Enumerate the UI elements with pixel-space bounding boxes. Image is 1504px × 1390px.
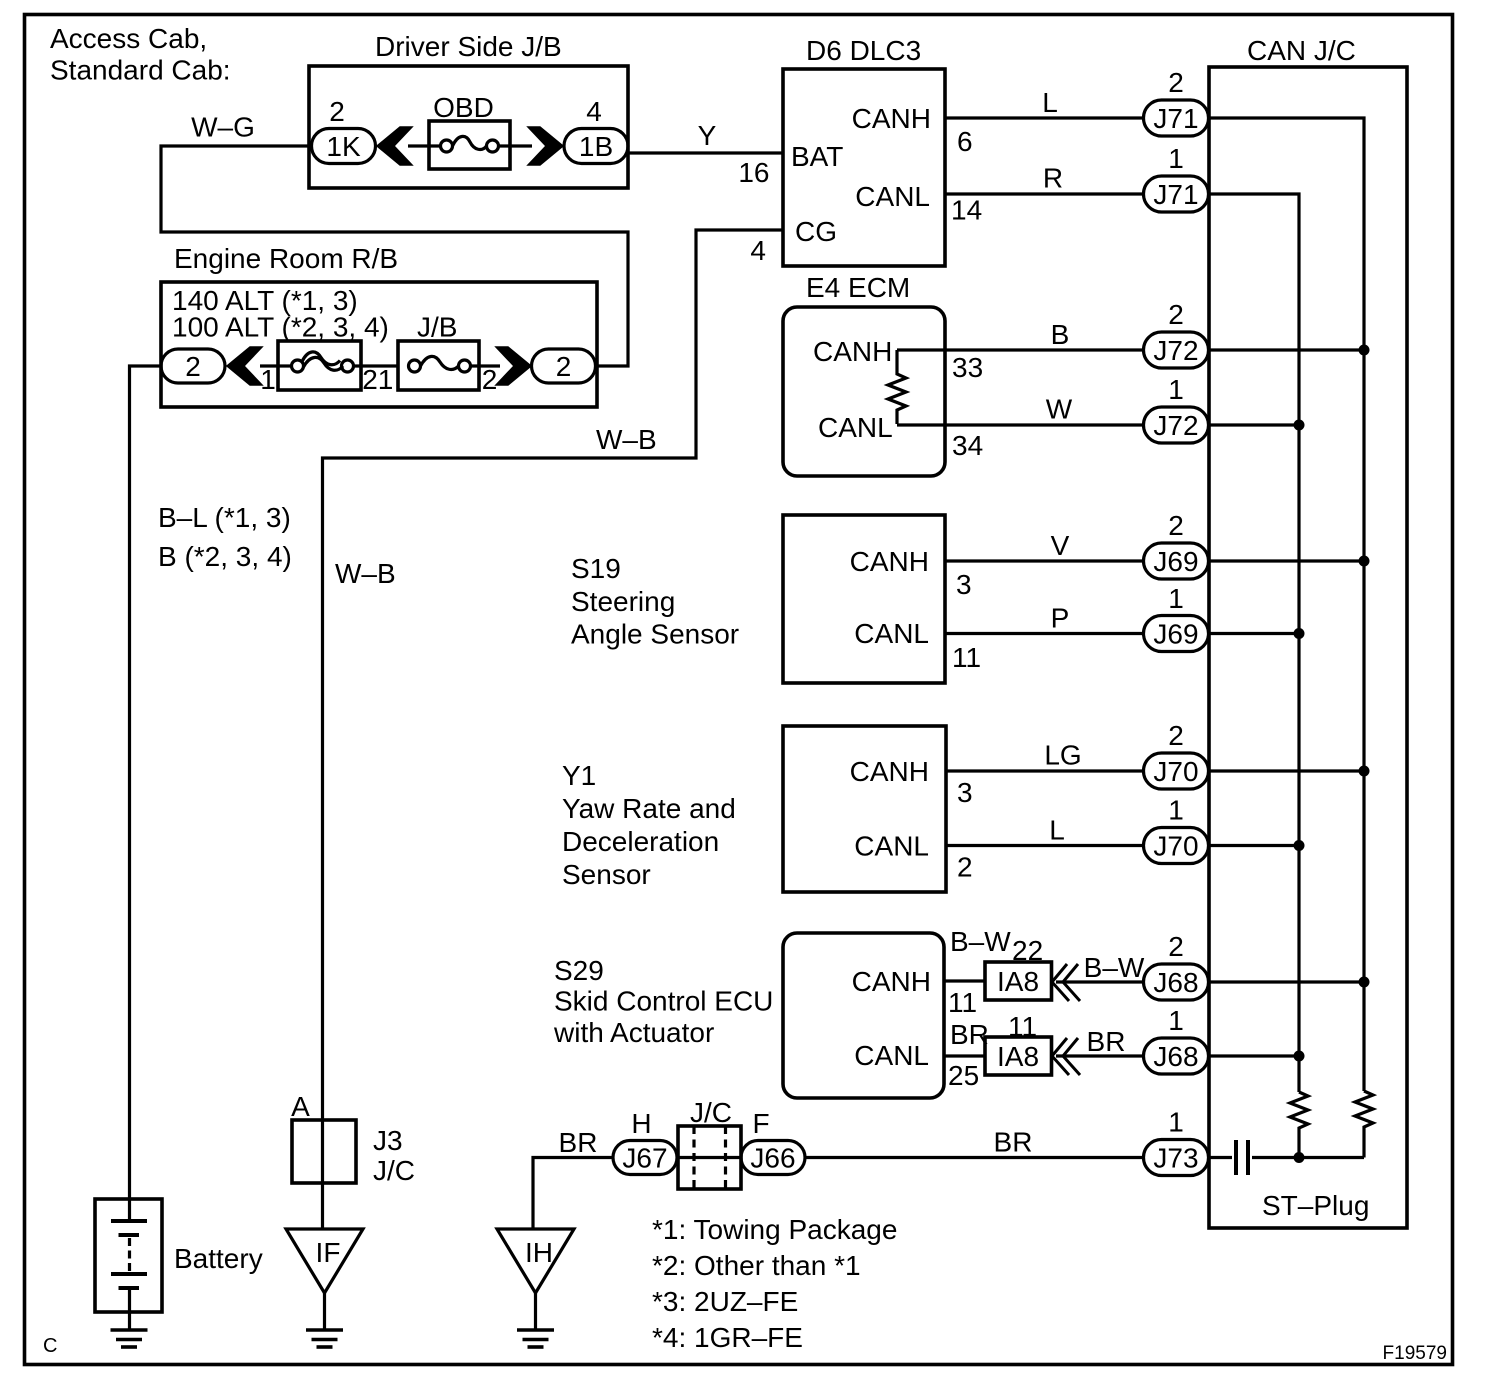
bus CANL (left vertical) [1209,194,1299,1092]
svg-text:J73: J73 [1153,1143,1198,1174]
svg-text:2: 2 [1168,67,1184,98]
wire stub J72-1 [1209,423,1299,426]
junction dot ST-Plug [1294,1152,1305,1163]
svg-text:2: 2 [185,351,201,382]
connector oval 2 (right) [532,349,596,383]
svg-text:J69: J69 [1153,619,1198,650]
svg-text:W: W [1046,394,1073,425]
svg-text:IA8: IA8 [997,1041,1039,1072]
svg-text:Steering: Steering [571,586,675,617]
svg-text:BAT: BAT [791,141,843,172]
svg-text:J66: J66 [750,1143,795,1174]
svg-text:H: H [631,1108,651,1139]
svg-text:V: V [1051,530,1070,561]
svg-text:CANH: CANH [852,103,931,134]
svg-text:IF: IF [316,1237,341,1268]
ground point IH [497,1229,574,1293]
svg-text:ST–Plug: ST–Plug [1262,1190,1369,1221]
connector arrow (right chevron) [496,347,531,385]
svg-text:J71: J71 [1153,179,1198,210]
svg-text:1B: 1B [579,131,613,162]
junction dot J68-2 [1359,977,1370,988]
ground (battery) [111,1328,148,1332]
svg-text:6: 6 [957,126,973,157]
ground point IF [286,1229,363,1293]
svg-text:Standard Cab:: Standard Cab: [50,55,231,86]
capacitor (ST-Plug) [1209,1156,1233,1159]
svg-text:3: 3 [956,569,972,600]
fuse 140/100 ALT [278,341,361,390]
svg-text:P: P [1051,603,1070,634]
svg-text:J69: J69 [1153,546,1198,577]
svg-text:*3: 2UZ–FE: *3: 2UZ–FE [652,1286,798,1317]
svg-text:*4: 1GR–FE: *4: 1GR–FE [652,1322,803,1353]
svg-text:CANH: CANH [850,756,929,787]
svg-text:2: 2 [1168,720,1184,751]
svg-text:4: 4 [750,235,766,266]
svg-text:J70: J70 [1153,756,1198,787]
svg-text:16: 16 [738,157,769,188]
svg-text:2: 2 [1168,931,1184,962]
svg-text:J68: J68 [1153,967,1198,998]
svg-text:B–W: B–W [950,926,1011,957]
svg-text:E4 ECM: E4 ECM [806,272,910,303]
svg-text:33: 33 [952,352,983,383]
svg-text:Y1: Y1 [562,760,596,791]
connector oval 2 (left) [161,349,225,383]
svg-text:CANH: CANH [813,336,892,367]
wire stub J69-1 [1209,632,1299,635]
svg-text:Skid Control ECU: Skid Control ECU [554,986,773,1017]
svg-text:J70: J70 [1153,831,1198,862]
svg-text:1: 1 [378,364,394,395]
svg-text:2: 2 [329,96,345,127]
junction dot J72-2 [1359,345,1370,356]
wire stub J68-2 [1209,980,1364,983]
svg-text:Y: Y [698,120,717,151]
connector arrow (left chevron) [377,127,412,165]
bus CANH (right vertical) [1209,118,1364,1091]
svg-text:with Actuator: with Actuator [553,1017,714,1048]
resistor (ECM terminating) [888,350,906,424]
svg-text:J67: J67 [622,1143,667,1174]
svg-text:Access Cab,: Access Cab, [50,23,207,54]
svg-text:Deceleration: Deceleration [562,826,719,857]
double chevron (CANL) [1052,1038,1069,1075]
wire: J3 to IF [321,1120,324,1229]
svg-text:CANL: CANL [855,181,930,212]
svg-text:BR: BR [950,1019,989,1050]
svg-text:Angle Sensor: Angle Sensor [571,619,739,650]
ground (IH) [517,1328,554,1332]
svg-text:J3: J3 [373,1125,403,1156]
svg-text:11: 11 [952,642,981,673]
double chevron (CANH) [1052,964,1069,1001]
svg-text:LG: LG [1044,740,1081,771]
connector IA8 (CANL) [985,1037,1052,1075]
connector arrow (left chevron) [227,347,262,385]
svg-text:2: 2 [482,364,498,395]
svg-text:J68: J68 [1153,1041,1198,1072]
wire stub J72-2 [1209,348,1364,351]
svg-text:CAN J/C: CAN J/C [1247,35,1356,66]
junction dot J70-1 [1294,840,1305,851]
svg-text:BR: BR [559,1127,598,1158]
svg-text:B–L (*1, 3): B–L (*1, 3) [158,502,291,533]
terminating resistor (left) [1290,1092,1308,1158]
svg-text:W–B: W–B [335,558,396,589]
wire W-B: CG to J3/IF ground [323,230,784,1120]
svg-text:CANL: CANL [818,412,893,443]
svg-text:100 ALT (*2, 3, 4): 100 ALT (*2, 3, 4) [172,312,389,343]
battery [95,1199,162,1312]
connector arrow (right chevron) [528,127,563,165]
svg-text:C: C [43,1335,57,1357]
terminating resistor (right) [1355,1091,1373,1158]
svg-text:1: 1 [1168,1005,1184,1036]
svg-text:1: 1 [1168,143,1184,174]
wire: S29 CANL to IA8 [944,1054,985,1057]
wire: S29 CANH to IA8 [944,979,985,982]
svg-text:CANH: CANH [852,966,931,997]
svg-text:2: 2 [1168,510,1184,541]
svg-text:2: 2 [1168,299,1184,330]
svg-text:Yaw Rate and: Yaw Rate and [562,793,736,824]
svg-text:CANL: CANL [854,1040,929,1071]
svg-text:J72: J72 [1153,410,1198,441]
svg-text:2: 2 [556,351,572,382]
svg-text:Battery: Battery [174,1243,263,1274]
svg-text:F: F [752,1108,769,1139]
svg-text:J71: J71 [1153,103,1198,134]
svg-text:4: 4 [586,96,602,127]
svg-text:S29: S29 [554,955,604,986]
svg-text:W–G: W–G [191,112,255,143]
svg-text:B–W: B–W [1084,952,1145,983]
wire stub J70-2 [1209,769,1364,772]
svg-text:1: 1 [1168,374,1184,405]
svg-text:L: L [1049,815,1065,846]
wire stub J68-1 [1209,1054,1299,1057]
ground (IF) [306,1328,343,1332]
junction dot J69-2 [1359,556,1370,567]
svg-text:1: 1 [1168,1107,1184,1138]
svg-text:14: 14 [951,195,982,226]
svg-text:A: A [291,1091,310,1122]
svg-text:W–B: W–B [596,424,657,455]
svg-text:CANH: CANH [850,546,929,577]
connector IA8 (CANH) [985,962,1052,1000]
svg-text:J/C: J/C [690,1097,732,1128]
svg-text:J/B: J/B [417,312,457,343]
junction dot J72-1 [1294,420,1305,431]
svg-text:BR: BR [994,1127,1033,1158]
svg-text:Engine Room R/B: Engine Room R/B [174,243,398,274]
svg-text:L: L [1042,87,1058,118]
svg-text:1: 1 [1168,795,1184,826]
svg-text:1K: 1K [326,131,361,162]
svg-text:IA8: IA8 [997,966,1039,997]
svg-text:B (*2, 3, 4): B (*2, 3, 4) [158,541,292,572]
svg-text:1: 1 [260,364,276,395]
svg-text:IH: IH [525,1237,553,1268]
wire stub J69-2 [1209,559,1364,562]
svg-text:J/C: J/C [373,1155,415,1186]
svg-text:Sensor: Sensor [562,859,651,890]
svg-text:B: B [1051,319,1070,350]
svg-text:CG: CG [795,216,837,247]
svg-text:J72: J72 [1153,335,1198,366]
junction dot J70-2 [1359,766,1370,777]
junction dot J69-1 [1294,628,1305,639]
svg-text:OBD: OBD [433,92,494,123]
svg-text:*2: Other than *1: *2: Other than *1 [652,1250,861,1281]
svg-text:3: 3 [957,777,973,808]
svg-text:1: 1 [1168,583,1184,614]
svg-text:11: 11 [948,987,977,1018]
wire W-G: 1K to Engine Room R/B [161,146,628,366]
svg-text:*1: Towing Package: *1: Towing Package [652,1214,897,1245]
svg-text:S19: S19 [571,553,621,584]
wire stub J70-1 [1209,844,1299,847]
svg-text:D6 DLC3: D6 DLC3 [806,35,921,66]
svg-text:Driver Side J/B: Driver Side J/B [375,31,562,62]
fuse J/B [398,341,479,390]
svg-text:CANL: CANL [854,831,929,862]
svg-text:2: 2 [957,852,973,883]
svg-text:F19579: F19579 [1383,1343,1447,1364]
svg-text:25: 25 [948,1060,979,1091]
svg-text:34: 34 [952,430,983,461]
svg-text:2: 2 [362,364,378,395]
svg-text:R: R [1043,163,1063,194]
junction dot J68-1 [1294,1051,1305,1062]
svg-text:BR: BR [1087,1026,1126,1057]
svg-text:CANL: CANL [854,618,929,649]
wire battery feed: oval 2 to battery [130,366,162,1199]
